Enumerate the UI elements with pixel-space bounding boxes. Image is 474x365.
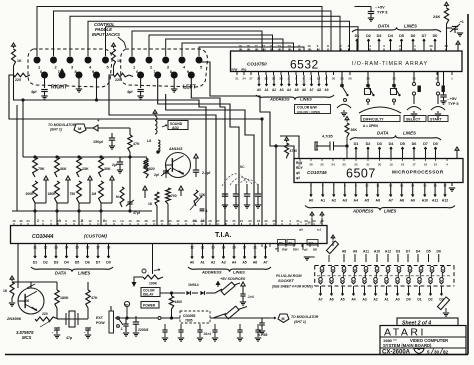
svg-text:22: 22 [264, 219, 268, 223]
svg-text:A5: A5 [242, 261, 246, 265]
+5V sources arrows [216, 281, 221, 286]
capacitor 4.7uf right jack [41, 89, 47, 91]
svg-text:21: 21 [235, 77, 239, 81]
box SELECT label [404, 116, 426, 122]
svg-text:2µf: 2µf [112, 163, 118, 167]
svg-text:A4: A4 [232, 261, 236, 265]
pot 100K color delay [143, 275, 163, 279]
resistor 800 [144, 160, 148, 178]
svg-text:COLOR = OPEN: COLOR = OPEN [297, 110, 320, 114]
ROM socket outline [315, 266, 454, 287]
capacitor 4.7uf left jack [140, 77, 142, 88]
svg-text:A1: A1 [200, 261, 204, 265]
svg-text:35: 35 [160, 219, 164, 223]
power arrows TIA right pins [310, 212, 314, 215]
power arrow paddle node [66, 176, 70, 180]
net label boxes inside TIA [278, 240, 286, 246]
svg-text:15: 15 [434, 163, 438, 167]
svg-text:LINES: LINES [404, 24, 417, 29]
svg-text:7805: 7805 [185, 319, 193, 323]
svg-text:.01×4: .01×4 [203, 332, 211, 336]
power arrow left jack [112, 43, 116, 46]
svg-text:RIGHT: RIGHT [51, 85, 68, 91]
resistor 23K paddle [77, 157, 82, 177]
resistor 13K variable [194, 190, 198, 206]
svg-text:TYP 5: TYP 5 [448, 102, 458, 106]
svg-text:RDY: RDY [296, 166, 304, 170]
svg-text:A5: A5 [340, 298, 344, 302]
svg-text:IRQ: IRQ [241, 67, 247, 71]
svg-text:4µf: 4µf [127, 90, 133, 94]
svg-text:A7: A7 [309, 88, 313, 92]
switch difficulty B [393, 72, 395, 86]
svg-text:30: 30 [192, 219, 196, 223]
svg-text:A3: A3 [343, 199, 348, 203]
svg-text:1K: 1K [148, 202, 153, 206]
svg-text:A5: A5 [294, 88, 298, 92]
svg-text:24: 24 [240, 219, 244, 223]
svg-text:D6: D6 [85, 261, 90, 265]
svg-text:φ2: φ2 [296, 176, 300, 180]
svg-text:47K: 47K [91, 296, 98, 300]
svg-text:32: 32 [176, 219, 180, 223]
svg-text:17: 17 [254, 44, 258, 48]
svg-text:A4: A4 [354, 199, 359, 203]
svg-text:(SHT 1): (SHT 1) [50, 128, 63, 132]
svg-text:D7: D7 [96, 261, 101, 265]
IC TIA box [11, 226, 328, 244]
svg-text:PA: PA [247, 49, 250, 52]
svg-text:26: 26 [224, 219, 228, 223]
svg-text:25: 25 [320, 163, 324, 167]
svg-text:MCS: MCS [22, 335, 32, 340]
svg-text:EXT: EXT [96, 316, 104, 320]
wire paddle to TIA pin [56, 203, 58, 225]
svg-text:1K: 1K [17, 59, 22, 63]
svg-text:37: 37 [152, 219, 156, 223]
brace address lines 6532 [256, 95, 334, 100]
svg-text:21: 21 [296, 219, 300, 223]
svg-text:PA: PA [308, 49, 311, 52]
svg-text:750: 750 [70, 192, 76, 196]
resistor 4700 6507 [285, 143, 289, 157]
svg-text:DATA: DATA [55, 271, 66, 276]
svg-text:PA: PA [255, 49, 258, 52]
svg-text:D1: D1 [355, 34, 360, 38]
svg-text:15: 15 [262, 44, 266, 48]
power arrow paddle node [110, 176, 114, 180]
connector stub 6507 [315, 142, 318, 150]
svg-text:A3: A3 [362, 298, 366, 302]
svg-text:D5: D5 [400, 142, 405, 146]
resistor osc 1K [10, 282, 14, 298]
svg-text:C/A: C/A [309, 241, 314, 245]
resistor 220 osc [35, 317, 58, 321]
wire paddle network rail [22, 100, 24, 157]
svg-text:D2: D2 [43, 261, 48, 265]
capacitor 2.2uf paddle [117, 161, 123, 163]
cap .1 power [123, 323, 128, 325]
svg-text:22: 22 [354, 163, 358, 167]
svg-text:26: 26 [309, 163, 313, 167]
svg-text:A8: A8 [399, 199, 404, 203]
svg-text:AM1163: AM1163 [168, 147, 182, 151]
wire osc rails [56, 308, 58, 319]
svg-text:PA: PA [263, 49, 266, 52]
svg-text:.1: .1 [205, 209, 208, 213]
svg-text:16: 16 [257, 219, 261, 223]
svg-text:47K: 47K [133, 142, 140, 146]
resistor 220 left jack [113, 66, 115, 75]
ground rom socket left [307, 256, 315, 258]
svg-text:ADDRESS: ADDRESS [201, 270, 222, 275]
svg-text:1K: 1K [3, 289, 8, 293]
svg-text:LEFT: LEFT [183, 85, 197, 91]
svg-text:A5: A5 [365, 199, 370, 203]
svg-text:TP: TP [125, 303, 129, 307]
svg-text:SELECT: SELECT [406, 118, 421, 122]
cap 47p right [85, 327, 91, 329]
6532 address lines arrows A0-A9 [258, 75, 260, 86]
switch color b/w [341, 72, 343, 86]
crystal 3.58MHz [69, 311, 75, 327]
svg-text:AD2: AD2 [172, 126, 179, 130]
title block main box [380, 326, 466, 355]
svg-text:LINES: LINES [78, 271, 91, 276]
ground left jack pin8 [173, 77, 175, 89]
svg-text:6507: 6507 [346, 167, 376, 181]
svg-text:PA: PA [298, 49, 301, 52]
wire bus from right controller jack to 6532 [37, 7, 322, 57]
svg-text:D1: D1 [354, 142, 359, 146]
svg-text:A6: A6 [302, 88, 306, 92]
svg-text:A7: A7 [388, 199, 393, 203]
svg-text:19: 19 [238, 44, 242, 48]
regulator 7805 box [180, 311, 210, 323]
svg-text:820: 820 [149, 167, 155, 171]
svg-text:A0: A0 [309, 199, 314, 203]
svg-text:φ0: φ0 [296, 171, 300, 175]
wire paddle to TIA pin [100, 203, 102, 225]
svg-text:19: 19 [389, 163, 393, 167]
svg-text:34: 34 [26, 219, 30, 223]
svg-text:21: 21 [366, 163, 370, 167]
resistor 81K audio [144, 158, 148, 172]
svg-text:38: 38 [144, 219, 148, 223]
svg-text:R/W: R/W [232, 67, 238, 71]
svg-text:φ0: φ0 [299, 228, 303, 232]
svg-text:D2: D2 [366, 142, 371, 146]
wire left jack pin6 down to TIA [158, 77, 239, 225]
svg-text:D0: D0 [406, 298, 410, 302]
svg-text:17: 17 [412, 163, 416, 167]
ROM socket top pin contacts [320, 267, 324, 271]
svg-text:LINES: LINES [300, 97, 312, 102]
svg-text:A8: A8 [317, 88, 321, 92]
svg-text:ADDRESS: ADDRESS [269, 97, 290, 102]
svg-text:A6: A6 [329, 298, 333, 302]
svg-text:DATA: DATA [377, 131, 389, 136]
svg-text:82: 82 [443, 349, 449, 354]
svg-text:18: 18 [401, 163, 405, 167]
brace data lines TIA [31, 267, 113, 272]
svg-text:A2: A2 [211, 261, 215, 265]
svg-text:20: 20 [304, 219, 308, 223]
svg-text:A11: A11 [432, 199, 438, 203]
svg-text:A2: A2 [272, 88, 276, 92]
svg-text:D3: D3 [396, 250, 400, 254]
svg-text:10: 10 [72, 219, 76, 223]
svg-text:→+5V: →+5V [446, 97, 457, 101]
svg-text:φ2: φ2 [304, 248, 308, 252]
svg-text:A12: A12 [442, 199, 448, 203]
svg-text:180K: 180K [48, 192, 57, 196]
svg-text:A2: A2 [373, 298, 377, 302]
svg-text:150µf: 150µf [93, 140, 104, 144]
brace data lines 6532 [352, 27, 441, 32]
box START label [428, 116, 448, 122]
ground 6507 right [451, 183, 453, 187]
left jack pins 1-5 [129, 57, 135, 63]
svg-text:2200/6: 2200/6 [138, 328, 148, 332]
svg-text:D0: D0 [433, 142, 438, 146]
power arrow rom left [331, 235, 334, 238]
6532 data lines D1-D0 arrows [356, 39, 358, 51]
ground right jack cap [44, 92, 46, 97]
svg-text:A12: A12 [385, 250, 391, 254]
svg-text:4.7/35: 4.7/35 [258, 333, 268, 337]
ferrite bead diagonal right [437, 297, 449, 310]
wire right jack pin9 down to bus [96, 77, 98, 100]
svg-text:30: 30 [308, 221, 312, 225]
ground right jack pin8 [78, 77, 80, 89]
svg-text:2: 2 [37, 219, 39, 223]
svg-text:D2: D2 [428, 298, 432, 302]
svg-text:A7: A7 [263, 261, 267, 265]
resistor 36K 6507 [345, 123, 349, 137]
box COLOR B/W legend [295, 105, 331, 114]
svg-text:11: 11 [80, 219, 83, 223]
wire left jack pot rail [109, 75, 216, 225]
svg-text:23: 23 [342, 163, 346, 167]
power arrow audio emitter [194, 154, 198, 158]
svg-text:BD: BD [313, 248, 317, 252]
svg-text:(SHT 1): (SHT 1) [294, 320, 307, 324]
svg-text:A10: A10 [422, 199, 428, 203]
variable capacitor trim [447, 27, 453, 29]
junction dot sound [157, 151, 159, 153]
power arrow sound [153, 110, 157, 113]
wire left jack pin9 down [191, 77, 225, 225]
junction dot A [261, 118, 263, 120]
svg-text:POW: POW [96, 321, 105, 325]
svg-text:→+5V: →+5V [374, 6, 385, 10]
right controller jack J1 outline [28, 49, 112, 87]
svg-text:PA: PA [288, 49, 291, 52]
box COLOR DELAY [141, 288, 160, 297]
svg-text:D6: D6 [437, 250, 441, 254]
svg-text:31: 31 [184, 219, 188, 223]
svg-text:D3: D3 [377, 34, 382, 38]
svg-text:A0: A0 [257, 88, 261, 92]
6507 data lines arrows [355, 147, 357, 159]
svg-text:POWER: POWER [143, 304, 156, 308]
right jack pins 1-5 [34, 57, 40, 63]
svg-text:20: 20 [378, 163, 382, 167]
svg-text:A3: A3 [221, 261, 225, 265]
svg-text:A8: A8 [342, 250, 346, 254]
svg-text:PA: PA [317, 49, 320, 52]
junction dots paddle rail [34, 156, 36, 158]
svg-text:33: 33 [168, 219, 172, 223]
svg-text:D5: D5 [75, 261, 80, 265]
svg-text:27: 27 [216, 219, 220, 223]
svg-text:A1: A1 [264, 88, 268, 92]
difficulty shared ground arc [359, 107, 401, 113]
resistor 4300 [169, 296, 173, 309]
power arrow left of right jack [12, 43, 16, 46]
svg-text:5: 5 [427, 349, 430, 354]
svg-text:D3: D3 [377, 142, 382, 146]
svg-text:A10: A10 [374, 250, 380, 254]
ROM socket bottom pin contacts [319, 278, 323, 282]
svg-text:20: 20 [332, 77, 336, 81]
svg-text:27: 27 [298, 163, 302, 167]
svg-text:36K: 36K [351, 128, 358, 132]
svg-text:2.2µf: 2.2µf [202, 171, 211, 175]
junction dot B [275, 145, 277, 147]
svg-text:200K: 200K [26, 192, 35, 196]
resistor 47K osc [86, 290, 90, 308]
switch start [437, 72, 439, 83]
power arrow 6507 right [455, 147, 459, 150]
cap 4.7/35 [259, 322, 265, 324]
resistor 30K paddle [99, 157, 104, 177]
svg-text:24: 24 [331, 163, 335, 167]
svg-text:CO10745: CO10745 [307, 170, 327, 175]
resistor 1M paddle [99, 181, 104, 203]
ground rom right [445, 308, 447, 312]
svg-text:ADDRESS: ADDRESS [352, 209, 374, 214]
svg-text:D7: D7 [406, 250, 410, 254]
capacitor 2.2uf audio [193, 169, 199, 171]
ext power jack [109, 311, 114, 333]
svg-text:NC: NC [240, 165, 245, 169]
switch power [117, 317, 120, 320]
svg-text:A6: A6 [376, 199, 381, 203]
svg-text:CO10750: CO10750 [247, 62, 267, 67]
svg-text:47p: 47p [66, 336, 73, 340]
svg-text:DIFFICULTY: DIFFICULTY [363, 118, 384, 122]
trim cap 47pf [129, 157, 131, 211]
brace data lines 6507 [350, 135, 441, 140]
inductor L9 [158, 140, 160, 152]
svg-text:16: 16 [424, 163, 428, 167]
svg-text:PA: PA [239, 49, 242, 52]
svg-text:A7: A7 [318, 298, 322, 302]
svg-text:13: 13 [277, 44, 281, 48]
svg-text:.1×4: .1×4 [247, 295, 254, 299]
svg-text:180K: 180K [60, 296, 69, 300]
inductor L8 [155, 116, 157, 134]
svg-text:2N3906: 2N3906 [6, 316, 22, 321]
svg-text:11: 11 [297, 44, 301, 48]
sheet border right edge [467, 14, 469, 355]
power arrow 36K pullup [345, 117, 349, 120]
svg-text:14: 14 [112, 219, 116, 223]
6532 top pin numbers [239, 49, 241, 52]
svg-text:1K: 1K [117, 59, 122, 63]
wire staircase to TIA 7 [201, 62, 276, 225]
svg-text:26: 26 [348, 77, 352, 81]
resistor 700 audio [166, 188, 171, 204]
svg-text:A6: A6 [253, 261, 257, 265]
svg-text:D7: D7 [423, 142, 428, 146]
brace address lines 6507 [305, 206, 455, 211]
diode to modulator [86, 127, 94, 129]
svg-text:5: 5 [59, 219, 61, 223]
IC 6532 RIOT box [231, 51, 463, 72]
svg-text:29: 29 [200, 219, 204, 223]
svg-text:LINES: LINES [403, 131, 416, 136]
ground osc [11, 298, 13, 302]
svg-text:D0: D0 [433, 34, 438, 38]
wire regulator out [210, 317, 240, 319]
svg-text:23: 23 [248, 219, 252, 223]
svg-text:28: 28 [208, 219, 212, 223]
svg-text:M: M [282, 317, 285, 321]
svg-text:18: 18 [246, 44, 250, 48]
svg-text:12: 12 [88, 219, 92, 223]
svg-text:A9: A9 [410, 199, 415, 203]
svg-text:LINES: LINES [384, 209, 397, 214]
svg-text:75K: 75K [38, 167, 45, 171]
IC 6507 microprocessor box [294, 159, 463, 183]
brace address lines TIA [188, 267, 271, 272]
svg-text:+5V SOURCES: +5V SOURCES [220, 277, 246, 281]
svg-text:PA: PA [278, 49, 281, 52]
svg-text:↗1: ↗1 [459, 20, 464, 24]
svg-text:4700: 4700 [290, 149, 298, 153]
svg-text:INPUT JACKS: INPUT JACKS [92, 32, 120, 37]
svg-text:A4: A4 [351, 298, 355, 302]
svg-text:A3: A3 [279, 88, 283, 92]
wire right jack left rail down [14, 75, 24, 100]
svg-text:D1: D1 [33, 261, 38, 265]
svg-text:A = OPEN: A = OPEN [363, 124, 379, 128]
svg-text:MICROPROCESSOR: MICROPROCESSOR [392, 170, 444, 175]
svg-text:LINES: LINES [233, 270, 245, 275]
ferrite bead diagonal top [326, 241, 338, 254]
svg-text:SYSTEM (MAIN BOARD): SYSTEM (MAIN BOARD) [383, 343, 432, 348]
svg-text:6532: 6532 [290, 58, 319, 72]
svg-text:RDY: RDY [293, 248, 299, 252]
power arrow right of 6532 [456, 41, 460, 44]
svg-text:D6: D6 [411, 34, 416, 38]
svg-text:CX-2600A: CX-2600A [382, 350, 411, 356]
wire right jack to TIA bus 1 [23, 100, 206, 225]
svg-text:T.I.A.: T.I.A. [215, 232, 231, 239]
svg-text:L8: L8 [147, 139, 151, 143]
svg-text:A1: A1 [321, 199, 326, 203]
switch select [413, 72, 415, 83]
svg-text:47pf: 47pf [133, 211, 141, 215]
caps bottom row [162, 329, 167, 331]
svg-text:I/O-RAM-TIMER ARRAY: I/O-RAM-TIMER ARRAY [352, 61, 428, 67]
resistor 75K paddle [33, 157, 38, 177]
svg-text:PA: PA [270, 49, 273, 52]
box SOUND AD2 [168, 121, 188, 130]
